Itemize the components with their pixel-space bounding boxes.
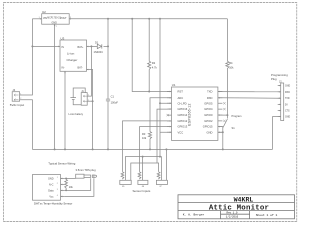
svg-text:ESP8266-12: ESP8266-12 [188, 103, 192, 125]
pin numbers J4 [20, 93, 21, 100]
DHT pin stubs [61, 178, 65, 196]
svg-text:1: 1 [39, 17, 40, 19]
svg-text:BAT-: BAT- [78, 67, 83, 70]
programming plug pin stubs [278, 86, 281, 117]
svg-text:2: 2 [56, 26, 57, 28]
TRS plug body [76, 174, 84, 178]
wire GPIO15 strap [218, 127, 223, 150]
svg-text:RXD: RXD [207, 96, 213, 100]
sensor connector J6 body [138, 180, 148, 184]
pin numbers J1 [88, 95, 89, 102]
regulator U2 body [42, 14, 69, 25]
DHT sensor body [33, 175, 61, 201]
wire DHT GND to plug sleeve [65, 177, 76, 179]
svg-text:Li-ion: Li-ion [67, 52, 75, 56]
svg-text:2: 2 [57, 183, 58, 185]
TRS plug shaft [84, 175, 97, 178]
wire DHT data row [65, 178, 91, 190]
svg-text:VOUT: VOUT [60, 17, 67, 20]
junction dot resistor bottom [65, 190, 67, 192]
diode D1 [96, 44, 102, 48]
svg-text:Program: Program [232, 114, 242, 118]
svg-text:3: 3 [57, 189, 58, 191]
svg-text:4: 4 [57, 195, 58, 197]
wire sensor mid line [125, 157, 161, 181]
svg-text:GPIO16: GPIO16 [178, 107, 188, 111]
svg-text:IN-: IN- [62, 67, 65, 70]
ESP right pin names [203, 90, 213, 135]
title block column dividers [221, 211, 250, 219]
wire U2 GND drop [54, 24, 56, 149]
connector J4 body [12, 92, 19, 102]
svg-text:Charger: Charger [67, 58, 78, 62]
plug pin arrowheads [279, 85, 281, 117]
wire D1 cathode to node [104, 45, 109, 47]
U2 pin arrowheads [40, 18, 88, 73]
switch S1 blade [223, 119, 227, 128]
svg-text:GND: GND [285, 86, 290, 88]
svg-text:D1: D1 [95, 41, 99, 45]
sensor resistor RJ6 [138, 172, 141, 179]
svg-text:GPIO13: GPIO13 [178, 125, 188, 129]
wire U3 BAT- to battery node [87, 70, 93, 150]
sensor resistor RJ5 [121, 172, 124, 179]
ESP pin arrowheads left [61, 85, 281, 197]
connector J4 pin arrows [14, 94, 19, 101]
wire plug GND riser [273, 117, 281, 150]
svg-text:GPIO5: GPIO5 [204, 101, 213, 105]
charger U3 body [60, 40, 87, 71]
wire DHT vcc row [65, 178, 94, 196]
resistor R3 [148, 132, 151, 139]
svg-text:3.5mm TRS plug: 3.5mm TRS plug [76, 168, 97, 172]
wire ESP TXD to plug [218, 91, 281, 93]
svg-text:3: 3 [70, 17, 71, 19]
wire U3 BAT+ to D1 [87, 45, 96, 47]
resistor R4 [226, 61, 229, 68]
DHT pin arrowheads [61, 178, 63, 198]
svg-text:TXD: TXD [207, 90, 212, 94]
svg-text:1N4004: 1N4004 [94, 50, 104, 54]
svg-text:10k: 10k [142, 136, 147, 140]
wire R2 branch [148, 19, 150, 92]
svg-text:10k: 10k [69, 186, 74, 189]
connector J4 stubs [20, 95, 23, 100]
junction dot resistor top [65, 178, 67, 180]
programming plug J2 body [281, 83, 284, 121]
connector J1 pin arrows [83, 95, 87, 102]
connector J1 body [81, 93, 87, 106]
svg-text:DHTxx Temp+Humidity Sensor: DHTxx Temp+Humidity Sensor [34, 202, 72, 206]
wire battery bottom lead [73, 100, 81, 105]
wire J4 GND drop [23, 100, 32, 150]
wire ESP RXD to plug [218, 97, 281, 100]
svg-text:J5: J5 [122, 186, 125, 188]
capacitor C1 plates [106, 99, 110, 101]
svg-text:RST: RST [178, 90, 184, 94]
svg-text:GPIO2: GPIO2 [204, 119, 213, 123]
sensor connector J5 body [120, 180, 131, 184]
wire sensor 3 gnd leg [165, 149, 167, 180]
svg-text:TXD: TXD [285, 98, 290, 100]
DHT pin names [48, 177, 54, 198]
svg-text:IN: IN [62, 46, 65, 49]
svg-text:10k: 10k [229, 66, 234, 70]
wire sensor outer line [131, 163, 159, 180]
svg-text:BAT+: BAT+ [78, 46, 84, 49]
wire C1 branch vertical [107, 19, 109, 150]
pin numbers DHT [57, 177, 58, 197]
svg-text:2: 2 [88, 100, 89, 102]
svg-text:GPIO4: GPIO4 [204, 107, 213, 111]
title block row dividers [178, 202, 295, 210]
wire J1 pin2 tap [87, 100, 92, 102]
wire GPIO12 to sensor 1 [123, 121, 172, 172]
svg-text:Sheet 1 of 1: Sheet 1 of 1 [256, 213, 278, 217]
component text labels [10, 10, 291, 197]
svg-text:1/2/2016: 1/2/2016 [226, 214, 239, 218]
title block outer box [178, 195, 295, 219]
wire U3 GND drop [64, 71, 66, 149]
svg-text:J7: J7 [159, 186, 162, 188]
svg-text:5Vdc Input: 5Vdc Input [10, 103, 25, 107]
wire RST pull branch [132, 19, 171, 92]
svg-text:RXD: RXD [285, 92, 290, 94]
resistor R2 [148, 61, 151, 69]
svg-text:Rev 1.0: Rev 1.0 [227, 211, 238, 214]
U3 pin arrowheads [58, 46, 88, 74]
wire GND bus [32, 148, 272, 150]
ESP left pin stubs [167, 92, 172, 133]
sensor resistor RJ7 [157, 172, 160, 179]
title block [178, 195, 295, 219]
svg-text:2: 2 [20, 98, 21, 100]
resistor Rpu 10k [65, 178, 68, 190]
svg-text:R4: R4 [229, 61, 233, 65]
svg-text:U2: U2 [42, 10, 46, 14]
svg-text:J4: J4 [12, 88, 15, 92]
wire GPIO16 branch [157, 109, 172, 163]
ESP right pin stubs [218, 92, 223, 133]
svg-text:U1: U1 [172, 83, 176, 87]
wire CH_PD / VCC riser [160, 19, 172, 157]
svg-text:GND: GND [48, 177, 54, 180]
svg-text:GND: GND [207, 130, 213, 134]
no-connect marks [167, 102, 226, 122]
svg-text:CTS: CTS [285, 111, 290, 113]
wire J4 5V riser [23, 19, 32, 95]
wire 3.3V rail left segment [32, 18, 41, 20]
svg-text:1: 1 [57, 177, 58, 179]
wire ESP GND row [218, 131, 223, 133]
svg-text:GND: GND [285, 117, 290, 119]
plug pin names [285, 86, 290, 119]
wire R4 branch [226, 19, 228, 119]
svg-text:Sensor Inputs: Sensor Inputs [133, 189, 151, 193]
svg-text:ADC: ADC [178, 96, 184, 100]
svg-text:Vcc: Vcc [49, 195, 54, 198]
wire ADC row and R3 branch [150, 98, 172, 150]
svg-text:Plug: Plug [271, 77, 277, 81]
svg-text:R3: R3 [142, 132, 146, 136]
svg-text:1: 1 [88, 95, 89, 97]
svg-text:Li-ion battery: Li-ion battery [69, 113, 84, 116]
wire battery top lead [73, 88, 85, 98]
ESP module U1 body [172, 87, 218, 140]
ESP pin arrowheads right [218, 91, 220, 133]
battery BT1 plates [70, 98, 76, 100]
ESP left pin names [178, 90, 188, 135]
svg-text:Data: Data [48, 189, 54, 192]
wire GPIO13 to sensor 2 [140, 127, 172, 172]
svg-text:U3: U3 [61, 37, 65, 41]
svg-text:1: 1 [20, 93, 21, 95]
svg-text:GND: GND [52, 22, 58, 25]
wire 3.3V rail right segment [69, 18, 227, 20]
wire 5V feed to U3 IN [32, 45, 60, 47]
svg-text:GPIO0: GPIO0 [204, 113, 213, 117]
svg-text:N-C: N-C [49, 183, 54, 186]
svg-text:5V: 5V [285, 104, 288, 106]
svg-text:R2: R2 [152, 61, 156, 65]
pin numbers U2 [39, 17, 71, 28]
svg-text:CH_PD: CH_PD [178, 101, 187, 105]
svg-text:VCC: VCC [178, 130, 184, 134]
Typical sensor wiring block [33, 174, 97, 200]
wire J1 pin1 riser to rail [87, 46, 91, 96]
svg-text:S1: S1 [232, 126, 236, 130]
svg-text:4.7k: 4.7k [152, 66, 158, 70]
svg-text:W4KRL: W4KRL [234, 196, 254, 203]
svg-text:K. A. Berger: K. A. Berger [183, 214, 205, 217]
sensor connector J7 body [156, 180, 167, 184]
svg-text:100uF: 100uF [111, 101, 119, 105]
svg-text:GPIO12: GPIO12 [178, 119, 188, 123]
svg-text:GPIO15: GPIO15 [203, 125, 213, 129]
svg-text:C1: C1 [111, 95, 115, 99]
svg-text:GPIO14: GPIO14 [178, 113, 188, 117]
wire GPIO0 row [218, 114, 228, 116]
wire sensor 2 mid drop [142, 157, 144, 181]
svg-text:Typical Sensor Wiring: Typical Sensor Wiring [48, 161, 75, 165]
svg-text:Attic Monitor: Attic Monitor [209, 204, 269, 212]
